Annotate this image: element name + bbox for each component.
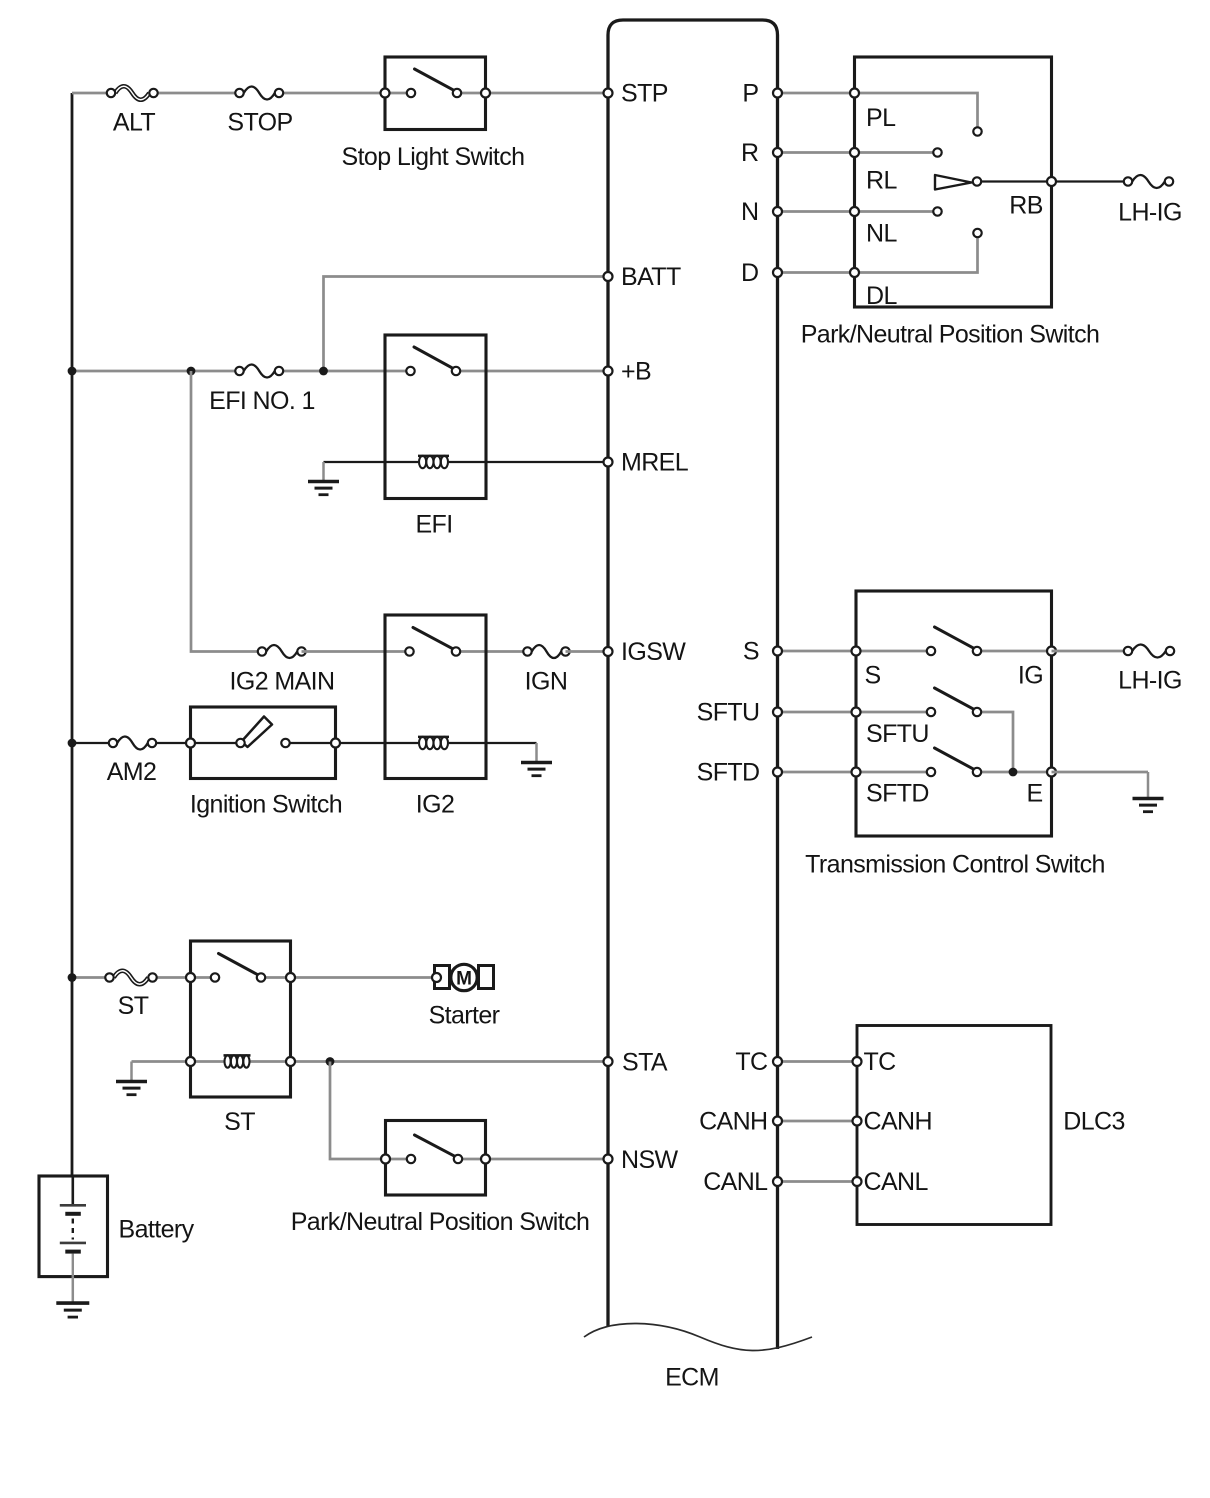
svg-text:Ignition Switch: Ignition Switch (190, 791, 342, 819)
svg-text:+B: +B (621, 358, 651, 386)
relay ST switch contacts (186, 954, 295, 983)
wire ST coil row to STA (132, 1060, 609, 1063)
transmission control switch box (856, 591, 1052, 836)
svg-text:ST: ST (118, 992, 149, 1020)
node bus/+B junction (68, 367, 77, 376)
svg-text:CANH: CANH (864, 1108, 932, 1136)
DLC3 terminals (853, 1057, 862, 1186)
wire BATT to +B node (324, 277, 609, 372)
node STA/NSW junction (326, 1057, 335, 1066)
pin label SFTD (ECM) (697, 759, 760, 787)
pin label CANL (ECM) (703, 1168, 768, 1196)
pin label NL (866, 220, 897, 248)
svg-text:NL: NL (866, 220, 897, 248)
label Battery (119, 1216, 195, 1244)
fusible link ALT (107, 86, 158, 100)
pin label TC (ECM) (735, 1048, 768, 1076)
svg-text:D: D (741, 259, 758, 287)
ignition switch box (191, 707, 336, 779)
wire SFTU contact row (856, 711, 931, 714)
fuse AM2 (109, 737, 156, 750)
wire P stub (778, 92, 855, 95)
contact RL wiper terminal (973, 177, 981, 185)
ECM terminal R (773, 148, 782, 157)
svg-text:Park/Neutral Position Switch: Park/Neutral Position Switch (801, 321, 1100, 349)
label Starter (429, 1002, 500, 1030)
node IG2-feed junction (187, 367, 196, 376)
relay IG2 switch contacts (405, 628, 460, 656)
stop light switch box (385, 57, 486, 130)
svg-text:SFTD: SFTD (697, 759, 760, 787)
pin label SFTD (TCS) (866, 780, 929, 808)
svg-text:R: R (741, 139, 758, 167)
label LH-IG (lower) (1118, 667, 1182, 695)
ECM terminal +B (604, 367, 613, 376)
pin label CANH (ECM) (699, 1108, 767, 1136)
label Ignition Switch (190, 791, 342, 819)
svg-text:Battery: Battery (119, 1216, 195, 1244)
wire D stub (778, 271, 855, 274)
wire PNP(NSW) to ECM (458, 1158, 608, 1161)
wire R stub (778, 151, 855, 154)
label IGN (525, 668, 568, 696)
battery cell plates (60, 1176, 86, 1277)
label Park/Neutral Position Switch (upper) (801, 321, 1100, 349)
wire S contact row (856, 650, 1052, 653)
ECM terminal NSW (604, 1155, 613, 1164)
fuse IGN (523, 645, 569, 658)
svg-text:EFI NO. 1: EFI NO. 1 (209, 387, 315, 415)
relay IG2 box (385, 615, 486, 779)
wire IG2 relay to IGN fuse (456, 650, 528, 653)
ECM terminal D (773, 268, 782, 277)
svg-text:ST: ST (224, 1108, 255, 1136)
pin label NSW (621, 1146, 679, 1174)
svg-text:ALT: ALT (113, 109, 156, 137)
fuse STOP (235, 87, 283, 100)
svg-text:LH-IG: LH-IG (1118, 667, 1182, 695)
wire ALT-STOP-StopLightSwitch row (72, 92, 608, 95)
wire CANH stub (778, 1120, 858, 1123)
fuse LH-IG (lower) (1124, 645, 1174, 658)
ECM terminal SFTU (773, 708, 782, 717)
svg-text:EFI: EFI (415, 511, 452, 539)
pin label SFTU (ECM) (697, 699, 760, 727)
pin label RB (1009, 192, 1043, 220)
pin label S (TCS) (865, 662, 881, 690)
wire E to ground (1052, 771, 1149, 774)
pin label PL (866, 104, 896, 132)
svg-text:M: M (456, 969, 472, 990)
svg-text:TC: TC (864, 1048, 897, 1076)
svg-text:S: S (865, 662, 881, 690)
svg-text:BATT: BATT (621, 263, 681, 291)
node bus/AM2 junction (68, 739, 77, 748)
stop light switch contacts (381, 69, 491, 98)
svg-text:CANH: CANH (699, 1108, 767, 1136)
pin label P (742, 80, 758, 108)
pin label CANL (DLC3) (864, 1168, 929, 1196)
wire CANL stub (778, 1180, 858, 1183)
ECM module outline (608, 20, 778, 1349)
ground EFI relay coil (308, 462, 339, 495)
fuse EFI NO. 1 (235, 365, 283, 378)
wire IG2 MAIN to IG2 relay (302, 650, 410, 653)
pin label STP (621, 80, 668, 108)
wire EFI relay coil row (MREL) (324, 461, 609, 463)
wire N stub (778, 210, 855, 213)
label ALT (113, 109, 156, 137)
label Stop Light Switch (342, 143, 525, 171)
label EFI NO. 1 (209, 387, 315, 415)
pin label STA (622, 1049, 668, 1077)
ECM terminal S (773, 647, 782, 656)
battery box (39, 1176, 108, 1277)
ignition switch key symbol (242, 717, 273, 748)
wire SFTU stub (778, 711, 857, 714)
ECM terminal TC (773, 1057, 782, 1066)
pin label RL (866, 167, 897, 195)
svg-text:CANL: CANL (864, 1168, 929, 1196)
svg-text:RL: RL (866, 167, 897, 195)
label ST (fusible link) (118, 992, 149, 1020)
pin label D (741, 259, 758, 287)
pin label BATT (621, 263, 681, 291)
wire IGN fuse to IGSW (566, 650, 609, 653)
fuse IG2 MAIN (258, 645, 306, 658)
wire S stub (778, 650, 857, 653)
relay EFI switch contacts (406, 347, 460, 375)
ECM terminal SFTD (773, 768, 782, 777)
svg-text:TC: TC (735, 1048, 768, 1076)
wire P to PL contact (855, 93, 978, 127)
pin label S (ECM) (743, 638, 759, 666)
wire AM2 row (72, 742, 537, 744)
ground battery (56, 1277, 89, 1318)
svg-text:PL: PL (866, 104, 896, 132)
ECM terminal BATT (604, 272, 613, 281)
svg-text:LH-IG: LH-IG (1118, 199, 1182, 227)
switch S contacts (927, 627, 981, 655)
ground IG2 coil (521, 743, 552, 776)
node bus/ST junction (68, 973, 77, 982)
svg-text:Park/Neutral Position Switch: Park/Neutral Position Switch (291, 1208, 590, 1236)
park/neutral position switch (NSW) contacts (381, 1135, 490, 1164)
wire battery bus (vertical) (71, 93, 74, 1176)
relay ST coil (224, 1055, 251, 1067)
svg-text:RB: RB (1009, 192, 1043, 220)
node BATT/+B junction (319, 367, 328, 376)
svg-text:DLC3: DLC3 (1063, 1108, 1125, 1136)
ECM bottom break wave (584, 1323, 812, 1350)
pin label N (741, 198, 758, 226)
label IG2 (416, 791, 455, 819)
label AM2 (107, 758, 157, 786)
switch SFTD contacts (927, 748, 981, 776)
svg-text:CANL: CANL (703, 1168, 768, 1196)
label DLC3 (1063, 1108, 1125, 1136)
relay ST coil terminals (186, 1057, 295, 1066)
label IG2 MAIN (230, 668, 335, 696)
ECM terminal CANL (773, 1177, 782, 1186)
wire STA node to NSW row (330, 1062, 411, 1160)
relay EFI box (385, 335, 486, 499)
svg-text:IGSW: IGSW (621, 638, 686, 666)
wire SFTD contact row (856, 771, 1052, 774)
pin label MREL (621, 449, 689, 477)
svg-text:P: P (742, 80, 758, 108)
ignition switch contacts (186, 739, 340, 748)
ECM terminal P (773, 89, 782, 98)
label ECM (665, 1364, 719, 1392)
ground ST relay coil (116, 1062, 147, 1095)
park/neutral position switch box (upper) (855, 57, 1052, 307)
contact NL left (933, 207, 941, 215)
ECM terminal CANH (773, 1117, 782, 1126)
svg-text:E: E (1026, 780, 1042, 808)
ECM terminal MREL (604, 458, 613, 467)
starter terminal (432, 973, 441, 982)
PNP terminals on box edge (850, 89, 1056, 278)
svg-text:DL: DL (866, 282, 897, 310)
svg-text:Transmission Control Switch: Transmission Control Switch (805, 851, 1105, 879)
pin label TC (DLC3) (864, 1048, 897, 1076)
wire SFTD stub (778, 771, 857, 774)
ECM terminal N (773, 207, 782, 216)
label ST (relay) (224, 1108, 255, 1136)
svg-text:Starter: Starter (429, 1002, 500, 1030)
DLC3 box (857, 1026, 1051, 1225)
label EFI (415, 511, 452, 539)
contact NL (973, 229, 981, 237)
pin label IG (1018, 662, 1043, 690)
starter motor body (451, 964, 477, 990)
ground TCS E (1133, 772, 1164, 812)
wire ST row (72, 976, 432, 979)
svg-text:ECM: ECM (665, 1364, 719, 1392)
pin label R (741, 139, 758, 167)
svg-text:IG2 MAIN: IG2 MAIN (230, 668, 335, 696)
ECM terminal STA (604, 1057, 613, 1066)
svg-text:N: N (741, 198, 758, 226)
TCS terminals on box edge (852, 647, 1057, 777)
label Park/Neutral Position Switch (lower) (291, 1208, 590, 1236)
relay IG2 coil (418, 737, 449, 749)
svg-text:S: S (743, 638, 759, 666)
wire TC stub (778, 1060, 858, 1063)
label LH-IG (upper) (1118, 199, 1182, 227)
switch SFTU contacts (927, 688, 981, 716)
ECM terminal STP (604, 89, 613, 98)
node SFTU/SFTD junction (1009, 768, 1018, 777)
svg-text:IG: IG (1018, 662, 1043, 690)
pin label CANH (DLC3) (864, 1108, 932, 1136)
wire +B node down to IG2 MAIN (191, 371, 262, 652)
relay EFI coil (418, 456, 449, 468)
wire SFTU to E node (977, 712, 1013, 772)
pin label +B (621, 358, 651, 386)
label STOP (227, 109, 292, 137)
pin label SFTU (TCS) (866, 720, 929, 748)
svg-text:MREL: MREL (621, 449, 689, 477)
wire R contact (855, 151, 934, 154)
svg-text:IGN: IGN (525, 668, 568, 696)
wire RL to LH-IG (977, 180, 1128, 182)
contact PL (973, 127, 981, 135)
ECM terminal IGSW (604, 647, 613, 656)
fuse LH-IG (upper) (1124, 175, 1173, 188)
svg-text:SFTU: SFTU (697, 699, 760, 727)
wire +B row (72, 370, 608, 373)
svg-text:STOP: STOP (227, 109, 292, 137)
svg-text:STA: STA (622, 1049, 668, 1077)
svg-text:NSW: NSW (621, 1146, 679, 1174)
pin label E (1026, 780, 1042, 808)
pin label DL (866, 282, 897, 310)
wire D to NL contact (855, 238, 978, 273)
fusible link ST (105, 971, 156, 985)
svg-text:SFTU: SFTU (866, 720, 929, 748)
starter motor brackets (435, 966, 494, 989)
svg-text:Stop Light Switch: Stop Light Switch (342, 143, 525, 171)
svg-text:SFTD: SFTD (866, 780, 929, 808)
label Transmission Control Switch (805, 851, 1105, 879)
svg-text:STP: STP (621, 80, 668, 108)
wiper RB (935, 175, 972, 190)
pin label IGSW (621, 638, 686, 666)
svg-text:IG2: IG2 (416, 791, 455, 819)
svg-text:AM2: AM2 (107, 758, 157, 786)
relay ST box (191, 941, 291, 1097)
park/neutral position switch (NSW) box (386, 1121, 486, 1196)
wire N contact (855, 210, 934, 213)
wire TCS to LH-IG fuse (1052, 650, 1129, 653)
contact RL left (933, 148, 941, 156)
